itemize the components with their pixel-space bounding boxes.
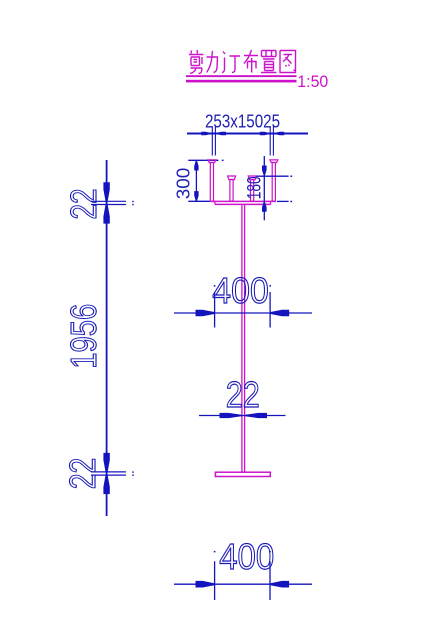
top flange bottom line [215, 203, 271, 205]
mid 400 ext dot left [214, 285, 216, 287]
mid 400 arrow left [196, 310, 215, 317]
left chain arrow up (22 bottom) [103, 475, 109, 494]
left chain tick top-2 [91, 204, 126, 206]
stud S4 head [270, 160, 278, 163]
left chain colon dots top [132, 201, 134, 202]
title underline 1 [186, 75, 297, 77]
svg-text:1956: 1956 [63, 304, 104, 369]
300 dim ext dot [222, 160, 224, 162]
180 dimension line [263, 156, 265, 220]
stud S2 shaft [230, 179, 233, 201]
top dim extension line pair left [211, 127, 213, 156]
mid 400 arrow right [271, 310, 290, 317]
mid 400 dimension line [174, 312, 312, 314]
svg-text:300: 300 [173, 168, 194, 200]
300 dimension line [195, 160, 197, 201]
left chain arrow down (22 top) [103, 182, 109, 201]
top dim arrow inner-left [216, 132, 226, 135]
svg-text:22: 22 [226, 374, 260, 415]
300 dim extension bottom [188, 200, 210, 202]
title 剪力订布置图 (hand-drawn strokes) [189, 50, 296, 74]
svg-text:22: 22 [62, 458, 103, 490]
180 extension bottom [277, 200, 289, 202]
top dim arrow outer-left [201, 132, 211, 135]
top dim arrow inner-right [260, 132, 270, 135]
mid 400 tick left [214, 292, 216, 328]
char 布 [244, 50, 258, 73]
top dim extension line pair right [269, 127, 271, 156]
bottom 400 dimension line [174, 583, 312, 585]
svg-text:253x15025: 253x15025 [205, 110, 280, 131]
stud S2 head [228, 176, 236, 180]
300 arrow down [194, 191, 198, 201]
bottom 400 arrow right [270, 581, 289, 588]
char 置 [261, 51, 277, 73]
svg-text:22: 22 [63, 189, 104, 220]
char 图 [280, 51, 296, 73]
180 arrow up [262, 202, 267, 211]
web 22 arrow right [245, 413, 267, 418]
top dim arrow outer-right [275, 132, 285, 135]
char 订 [222, 52, 240, 73]
char 力 [207, 51, 219, 73]
left chain tick bottom-1 [91, 471, 126, 473]
stud S3 head [248, 176, 256, 180]
bottom flange [215, 472, 270, 476]
stud S1 head [208, 160, 216, 163]
mid 400 tick right [269, 292, 271, 328]
bottom 400 arrow left [196, 581, 215, 588]
svg-text:400: 400 [212, 270, 268, 311]
mid 400 ext dot right [269, 285, 271, 287]
180 arrow down [262, 166, 267, 175]
bottom 400 ext dot right [269, 551, 271, 553]
top flange top line [210, 200, 276, 202]
left chain arrow up (1956 top) [103, 205, 109, 224]
300 dim extension top [188, 159, 218, 161]
web 22 dimension line [199, 415, 286, 417]
top flange left edge [214, 201, 216, 204]
title period dot [294, 70, 296, 72]
180 extension top [256, 175, 288, 177]
top dimension line [187, 133, 308, 135]
left chain colon dots bottom [132, 471, 134, 472]
left chain arrow down (1956 bottom) [103, 453, 109, 472]
stud S4 shaft [272, 163, 275, 202]
180 ext top dot [290, 176, 292, 178]
top flange right edge [270, 201, 272, 204]
bottom 400 ext dot left [214, 551, 216, 553]
bottom 400 tick left [214, 561, 216, 600]
svg-text:400: 400 [219, 536, 274, 577]
title underline 2 [186, 80, 297, 83]
180 ext bottom dot [290, 201, 292, 203]
web 22 arrow left [220, 413, 242, 418]
300 arrow up [194, 161, 198, 171]
left chain tick top-1 [91, 200, 126, 202]
bottom 400 tick right [269, 561, 271, 600]
svg-text:1:50: 1:50 [297, 73, 328, 91]
stud S1 shaft [210, 163, 213, 202]
left chain dimension line [106, 160, 108, 516]
svg-text:180: 180 [244, 176, 266, 199]
web right line [244, 204, 246, 472]
left chain tick bottom-2 [91, 474, 126, 476]
web left line [241, 204, 243, 472]
char 剪 [189, 50, 204, 74]
stud S3 shaft [251, 179, 254, 201]
